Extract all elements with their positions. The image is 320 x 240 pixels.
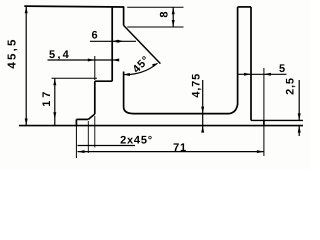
extension line for 5,4 lower wall face xyxy=(94,56,96,80)
arrow arc upper end xyxy=(152,63,157,67)
45deg angle dimension arc xyxy=(124,63,158,74)
bottom edge of part with extensions xyxy=(19,125,303,127)
arrow 45,5 bottom xyxy=(25,119,28,126)
extension line at right edge x=264 for 5 and 71 xyxy=(263,68,265,156)
arrow 4,75 up at bottom xyxy=(201,126,204,133)
arrow 5 right-pointing at 250.2 xyxy=(244,73,251,76)
svg-text:2x45°: 2x45° xyxy=(120,134,153,146)
extension line x=95.3 chamfer top xyxy=(94,116,96,148)
lower-left face of wall xyxy=(94,81,96,114)
arrow 5,4 right-pointing at 95.3 xyxy=(88,59,95,62)
dimension 17 line xyxy=(54,78,56,125)
dimension 8 line xyxy=(172,7,174,27)
dimension 6 line xyxy=(90,40,136,42)
arrow 4,75 down at floor xyxy=(201,107,204,114)
right wall right face xyxy=(250,7,252,121)
right wall top edge xyxy=(238,6,251,8)
fillet left wall to floor xyxy=(124,108,134,114)
arrow 6 left-pointing at 112.2 xyxy=(112,40,118,43)
right face of wall lower part xyxy=(123,72,125,108)
arrow arc lower end xyxy=(124,73,130,76)
part right edge at bottom xyxy=(263,120,265,125)
arrow 45,5 top xyxy=(25,6,28,13)
dimension 4,75 line xyxy=(202,80,204,132)
extension line top of 17 xyxy=(52,77,98,79)
45deg bevel edge xyxy=(124,25,161,63)
svg-text:5,4: 5,4 xyxy=(49,49,71,61)
fillet floor to right wall xyxy=(230,104,238,113)
bottom right step with extension line for 2,5 xyxy=(251,119,303,121)
top edge of left wall with extension to 45,5 dim line xyxy=(24,5,124,8)
svg-text:17: 17 xyxy=(41,89,53,107)
left face of upper wall xyxy=(111,7,113,81)
right wall left face xyxy=(237,7,239,105)
extension line top for 8 xyxy=(127,6,183,8)
arrow 8 bottom xyxy=(172,20,175,27)
foot left face xyxy=(75,119,77,125)
pocket floor xyxy=(134,113,230,115)
dimension 5 line xyxy=(238,73,287,75)
extension line bottom for 8 xyxy=(127,26,183,28)
svg-text:6: 6 xyxy=(92,30,99,42)
arrow 5 left-pointing at 263.9 xyxy=(264,73,271,76)
svg-text:2,5: 2,5 xyxy=(285,77,297,95)
arrow 6 right-pointing at 123.6 xyxy=(118,40,124,43)
arrow 2,5 down at 120.4 xyxy=(298,113,301,120)
dimension 2,5 line upper xyxy=(298,80,300,120)
svg-text:8: 8 xyxy=(159,11,171,18)
dimension 5,4 line xyxy=(48,59,119,61)
arrow 8 top xyxy=(172,7,175,14)
arrow 17 top xyxy=(53,78,56,85)
arrow 71 right end xyxy=(257,150,264,153)
arrow 17 bottom xyxy=(53,112,56,119)
svg-text:71: 71 xyxy=(173,142,187,154)
dimension 45,5 line xyxy=(25,6,27,126)
foot chamfer 2x45 xyxy=(88,114,95,119)
arrow 2,5 up at 126.3 xyxy=(298,126,301,133)
dimension 2x45 line xyxy=(78,145,136,147)
dimension 71 line xyxy=(78,151,264,153)
arrow 5,4 left-pointing at 112.2 xyxy=(112,59,119,62)
arrow 71 left end xyxy=(78,150,85,153)
svg-text:45,5: 45,5 xyxy=(6,37,18,68)
step at left wall xyxy=(95,80,112,82)
svg-text:45°: 45° xyxy=(131,54,153,76)
svg-text:4,75: 4,75 xyxy=(191,73,203,98)
dimension 2,5 line lower xyxy=(298,126,300,136)
extension line below foot left face xyxy=(75,126,77,158)
svg-text:5: 5 xyxy=(279,63,286,75)
foot top edge xyxy=(76,118,88,120)
right face of upper wall xyxy=(123,7,125,25)
extension line x=88.8 chamfer bottom xyxy=(87,121,89,153)
